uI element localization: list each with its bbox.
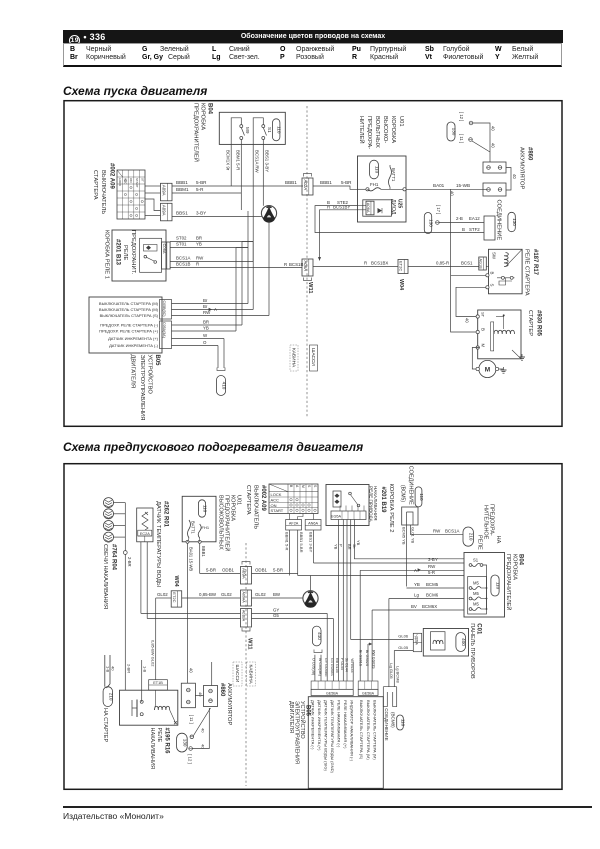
svg-text:ДАТЧИК ТЕМПЕРАТУРЫ ВОДЫ (SIG): ДАТЧИК ТЕМПЕРАТУРЫ ВОДЫ (SIG) [324, 700, 329, 771]
svg-text:A09AA: A09AA [242, 592, 246, 604]
svg-text:[ 12 ]: [ 12 ] [188, 754, 193, 763]
svg-text:40: 40 [111, 666, 116, 671]
svg-text:M5: M5 [473, 581, 479, 586]
svg-text:(ВСМ5): (ВСМ5) [399, 485, 405, 502]
svg-text:РЕЛЕ НАКАЛИВАНИЯ (+): РЕЛЕ НАКАЛИВАНИЯ (+) [343, 700, 348, 749]
svg-text:1-B: 1-B [106, 666, 111, 673]
svg-text:СОЕДИНЕНИЕ: СОЕДИНЕНИЕ [408, 466, 414, 505]
svg-text:C01: C01 [476, 623, 482, 635]
svg-text:Lg BCM8: Lg BCM8 [396, 666, 401, 683]
svg-text:3b GL44: 3b GL44 [344, 658, 348, 672]
svg-text:#195 R16: #195 R16 [164, 728, 170, 755]
svg-text:АККУМУЛЯТОР: АККУМУЛЯТОР [226, 683, 232, 725]
svg-text:130: 130 [182, 739, 187, 747]
svg-text:410: 410 [317, 632, 322, 640]
svg-text:RW: RW [433, 529, 441, 534]
svg-text:ВЫСОКОВОЛЬТНЫХ: ВЫСОКОВОЛЬТНЫХ [218, 495, 224, 550]
svg-text:W04: W04 [173, 576, 179, 587]
svg-text:КАБИНА: КАБИНА [248, 665, 254, 685]
svg-text:210: 210 [469, 533, 474, 541]
svg-text:Lg GL05: Lg GL05 [389, 663, 394, 679]
svg-text:ACC: ACC [271, 498, 280, 503]
svg-text:ET2C: ET2C [172, 592, 177, 602]
svg-text:A01BA: A01BA [242, 610, 246, 622]
svg-text:ДАТЧИК ИНКРЕМЕНТА (+): ДАТЧИК ИНКРЕМЕНТА (+) [317, 700, 322, 751]
svg-text:BCM6: BCM6 [426, 593, 439, 598]
svg-text:S: S [307, 485, 311, 488]
svg-text:ET1B: ET1B [153, 681, 163, 685]
svg-text:5-R: 5-R [428, 570, 435, 575]
svg-text:RW: RW [428, 564, 436, 569]
svg-text:M: M [301, 485, 305, 488]
svg-text:1-B: 1-B [143, 666, 148, 673]
svg-text:BBB1 5-BR: BBB1 5-BR [299, 532, 304, 553]
svg-text:ДАТЧИК ТЕМПЕРАТУРЫ ВОДЫ: ДАТЧИК ТЕМПЕРАТУРЫ ВОДЫ [155, 501, 161, 587]
svg-text:RB GL05: RB GL05 [335, 658, 339, 673]
svg-text:#860: #860 [219, 683, 225, 697]
svg-text:AN6A: AN6A [308, 521, 318, 525]
svg-text:ЧД2БА: ЧД2БА [415, 635, 419, 646]
svg-text:GE5BA: GE5BA [326, 692, 339, 696]
svg-text:BA01 15-WB: BA01 15-WB [189, 547, 194, 571]
svg-text:ON: ON [271, 503, 277, 508]
svg-text:YB: YB [356, 540, 361, 546]
svg-text:GL01 YB: GL01 YB [411, 527, 416, 543]
svg-text:BBB1: BBB1 [201, 546, 206, 557]
svg-text:СОЕДИНЕНИЕ: СОЕДИНЕНИЕ [384, 708, 389, 740]
svg-text:СВЕЧИ НАКАЛИВАНИЯ: СВЕЧИ НАКАЛИВАНИЯ [102, 544, 108, 609]
svg-text:#262 R01: #262 R01 [163, 501, 169, 528]
svg-text:5-BR: 5-BR [273, 568, 283, 573]
svg-text:A: A [295, 485, 299, 488]
svg-text:ДВИГАТЕЛЯ: ДВИГАТЕЛЯ [288, 701, 294, 733]
svg-text:BCM5: BCM5 [426, 582, 439, 587]
svg-text:КОРОБКА: КОРОБКА [512, 554, 518, 580]
svg-text:ВЫКЛЮЧАТЕЛЬ СТАРТЕРА (M): ВЫКЛЮЧАТЕЛЬ СТАРТЕРА (M) [366, 700, 371, 760]
svg-text:ВЫКЛЮЧАТЕЛЬ СТАРТЕРА (M): ВЫКЛЮЧАТЕЛЬ СТАРТЕРА (M) [372, 700, 377, 760]
svg-text:40: 40 [201, 728, 206, 733]
svg-text:BCM6X: BCM6X [422, 604, 437, 609]
svg-text:ODB1: ODB1 [222, 568, 235, 573]
svg-text:P GL55: P GL55 [340, 658, 344, 670]
svg-text:P: P [339, 544, 344, 547]
svg-text:НА СТАРТЕР: НА СТАРТЕР [102, 708, 108, 743]
svg-text:ПАНЕЛЬ ПРИБОРОВ: ПАНЕЛЬ ПРИБОРОВ [469, 623, 475, 679]
svg-text:РЕЛЕ: РЕЛЕ [156, 728, 162, 743]
svg-text:КОРОБКА РЕЛЕ 2: КОРОБКА РЕЛЕ 2 [388, 484, 394, 533]
svg-text:Lg: Lg [414, 593, 419, 598]
svg-text:B05: B05 [305, 705, 311, 717]
svg-text:3-BY: 3-BY [428, 557, 438, 562]
svg-text:(ВСМ8): (ВСМ8) [391, 712, 396, 728]
svg-text:110: 110 [401, 719, 406, 727]
svg-text:S1: S1 [473, 558, 479, 563]
svg-text:110: 110 [419, 493, 424, 501]
svg-text:M5: M5 [473, 602, 479, 607]
svg-text:2-BR: 2-BR [126, 664, 131, 673]
svg-text:НАКАЛИВАНИЯ: НАКАЛИВАНИЯ [373, 486, 378, 520]
svg-text:EC2A: EC2A [140, 532, 150, 536]
svg-text:A09A: A09A [242, 568, 247, 579]
svg-text:НА: НА [495, 536, 501, 544]
svg-text:A: A [414, 568, 417, 573]
svg-text:НИТЕЛЬНОЕ: НИТЕЛЬНОЕ [483, 505, 489, 540]
svg-text:2-BR: 2-BR [127, 557, 132, 567]
svg-text:GL02: GL02 [221, 592, 232, 597]
svg-text:FH1: FH1 [202, 525, 210, 530]
svg-text:ДАТЧИК ТЕМПЕРАТУРЫ ВОДЫ (GND): ДАТЧИК ТЕМПЕРАТУРЫ ВОДЫ (GND) [330, 700, 335, 774]
svg-text:GL06: GL06 [398, 634, 409, 639]
svg-text:ПРЕДОХРА-: ПРЕДОХРА- [489, 504, 495, 536]
svg-text:40: 40 [189, 668, 194, 673]
svg-text:S: S [313, 485, 317, 488]
svg-text:W11: W11 [247, 638, 253, 650]
svg-text:#764 R04: #764 R04 [111, 544, 117, 571]
svg-text:40: 40 [198, 692, 203, 697]
svg-text:BBM1 5-R: BBM1 5-R [285, 532, 290, 551]
svg-text:B: B [289, 485, 293, 488]
svg-text:[ 11 ]: [ 11 ] [189, 715, 194, 724]
svg-text:YB: YB [414, 582, 420, 587]
svg-text:BV: BV [411, 604, 417, 609]
svg-text:ИНДИКАТОР НАКАЛИВАНИЯ (-): ИНДИКАТОР НАКАЛИВАНИЯ (-) [350, 700, 355, 762]
svg-text:110: 110 [203, 505, 208, 513]
svg-text:110: 110 [496, 582, 501, 590]
svg-text:РЕЛЕ НАКАЛИВАНИЯ (-): РЕЛЕ НАКАЛИВАНИЯ (-) [337, 700, 342, 748]
svg-text:ШАССИ: ШАССИ [234, 665, 240, 683]
svg-text:START: START [271, 508, 284, 513]
svg-text:U01: U01 [236, 495, 242, 505]
svg-text:ЭЛЕКТРОУПРАВЛЕНИЯ: ЭЛЕКТРОУПРАВЛЕНИЯ [294, 701, 300, 764]
svg-text:ВЫКЛЮЧАТЕЛЬ СТАРТЕРА (S): ВЫКЛЮЧАТЕЛЬ СТАРТЕРА (S) [359, 700, 364, 760]
svg-text:M5: M5 [473, 591, 479, 596]
svg-text:GL02: GL02 [255, 592, 266, 597]
svg-text:AF2A: AF2A [289, 521, 299, 525]
svg-text:BR: BR [347, 544, 352, 550]
svg-text:КОРОБКА: КОРОБКА [230, 495, 236, 521]
svg-text:210: 210 [108, 693, 113, 701]
svg-text:РЕЛЕ ПРИВОДА: РЕЛЕ ПРИВОДА [369, 486, 374, 523]
svg-text:ODB1: ODB1 [255, 568, 268, 573]
svg-text:0,85-BW: 0,85-BW [199, 592, 217, 597]
svg-text:5-BR: 5-BR [206, 568, 216, 573]
svg-text:GL02: GL02 [157, 592, 168, 597]
svg-text:EG5A: EG5A [331, 515, 342, 519]
svg-text:ВЫКЛЮЧАТЕЛЬ: ВЫКЛЮЧАТЕЛЬ [253, 485, 259, 529]
svg-text:BCM5 YB: BCM5 YB [402, 527, 407, 545]
svg-text:B04: B04 [518, 554, 524, 566]
svg-text:GE5BA: GE5BA [362, 692, 375, 696]
svg-text:LOCK: LOCK [271, 492, 282, 497]
svg-text:BATT1: BATT1 [191, 521, 196, 534]
svg-text:#201 B19: #201 B19 [380, 487, 386, 514]
svg-text:0,85-BW GL02: 0,85-BW GL02 [151, 640, 156, 667]
svg-text:BBS1 3-BY: BBS1 3-BY [309, 532, 314, 553]
svg-text:400: 400 [461, 638, 466, 646]
svg-text:НАКАЛИВАНИЯ: НАКАЛИВАНИЯ [149, 728, 155, 770]
svg-text:G5: G5 [273, 613, 279, 618]
svg-text:РЕЛЕ: РЕЛЕ [477, 535, 483, 550]
svg-text:СТАРТЕРА: СТАРТЕРА [245, 485, 251, 515]
svg-text:BCS1A: BCS1A [445, 529, 459, 534]
svg-text:YB: YB [334, 544, 339, 550]
svg-text:GL05: GL05 [398, 645, 409, 650]
svg-text:BW: BW [273, 592, 281, 597]
svg-text:GY: GY [273, 607, 279, 612]
svg-text:#002 A09: #002 A09 [260, 485, 266, 511]
